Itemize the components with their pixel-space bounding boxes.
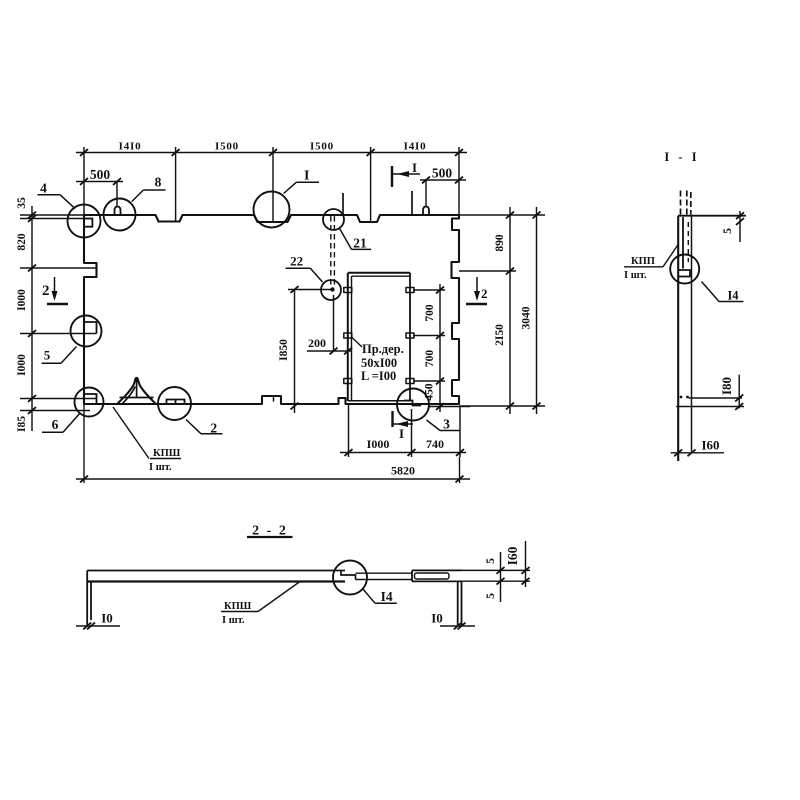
dim 10 left (section 2-2) <box>76 625 120 627</box>
svg-text:3: 3 <box>443 417 450 432</box>
loop bars above section <box>681 191 691 215</box>
circle 1 <box>254 192 290 228</box>
svg-text:Пр.дер.: Пр.дер. <box>362 342 404 356</box>
dim 160 (section 1-1) <box>671 452 724 454</box>
svg-text:I4I0: I4I0 <box>404 141 427 153</box>
svg-text:I500: I500 <box>310 141 334 153</box>
svg-text:I500: I500 <box>215 141 239 153</box>
dots on section line <box>680 396 683 399</box>
svg-text:2: 2 <box>42 283 50 299</box>
svg-text:I4I0: I4I0 <box>119 141 142 153</box>
svg-text:890: 890 <box>494 234 506 252</box>
section mark 2 left <box>47 277 68 304</box>
section mark I bottom (near circle 3) <box>393 411 414 427</box>
svg-text:I: I <box>412 160 417 175</box>
svg-text:I85: I85 <box>16 416 28 432</box>
dim line 1410/1500/1500/1410 <box>76 147 467 222</box>
svg-text:I60: I60 <box>505 546 520 565</box>
dim 5820 <box>76 404 470 483</box>
svg-text:I850: I850 <box>278 339 290 361</box>
ext y=218.5 (35) <box>20 218 92 220</box>
svg-text:2: 2 <box>481 286 488 301</box>
strip top line left part <box>87 570 345 572</box>
extension line x=175.6 <box>175 147 177 221</box>
inner lap line solid <box>682 217 684 269</box>
dim 500 right <box>420 180 466 206</box>
svg-text:I - I: I - I <box>664 150 699 164</box>
horizontal line at y=289.5 to circle 22 <box>288 289 334 291</box>
extension line x=370.6 <box>370 147 372 222</box>
circle 4 <box>68 205 101 238</box>
leader КПШ (section 2-2) <box>258 582 300 612</box>
svg-text:22: 22 <box>290 253 303 268</box>
notch in circle 4 <box>84 219 92 227</box>
ext y=333.5 <box>20 333 97 335</box>
lifting loop right <box>423 207 429 216</box>
extension line right edge up <box>458 147 460 215</box>
ext y=271 <box>459 270 516 272</box>
dim 180 (section 1-1) <box>676 375 744 409</box>
svg-text:5: 5 <box>44 347 51 362</box>
svg-text:700: 700 <box>424 350 436 368</box>
leader КПП <box>663 244 679 267</box>
circle 3 <box>397 389 429 421</box>
svg-text:35: 35 <box>16 197 28 209</box>
ext y=410.5 <box>20 410 90 412</box>
inner lap line dashed <box>687 222 689 262</box>
svg-text:500: 500 <box>90 167 111 182</box>
step symbol in circle 3 <box>404 401 421 406</box>
ext y=398.5 <box>20 398 97 400</box>
extension line x=273 through circle 1 <box>272 147 274 222</box>
svg-text:50хI00: 50хI00 <box>361 356 397 370</box>
svg-text:450: 450 <box>424 383 436 401</box>
svg-text:700: 700 <box>424 304 436 322</box>
ext y=215 <box>20 214 84 216</box>
svg-text:740: 740 <box>426 437 444 451</box>
opening right edge <box>409 273 411 401</box>
ext y=268 <box>20 267 96 269</box>
circle 14 (section 2-2) <box>333 561 367 595</box>
circle 5 <box>71 316 102 347</box>
leader for Пр.дер. <box>352 337 363 347</box>
svg-text:4: 4 <box>40 181 47 196</box>
lap step in circle 14 <box>341 571 356 580</box>
dim line 890/2150 <box>509 207 511 414</box>
dim 500 left <box>76 182 123 207</box>
svg-text:I4: I4 <box>381 589 393 604</box>
leader bell to KPSh label <box>113 407 149 459</box>
dim 200 <box>307 295 352 351</box>
wooden plug right middle <box>406 333 414 338</box>
svg-text:I000: I000 <box>16 354 28 376</box>
right slab of section 2-2 <box>412 570 462 581</box>
svg-text:5: 5 <box>485 558 497 564</box>
svg-text:I шт.: I шт. <box>149 462 172 473</box>
node dot in circle 22 <box>330 287 334 291</box>
dim 5 (section 1-1) <box>739 211 741 242</box>
wooden plug left top <box>344 288 352 293</box>
bell chord <box>120 397 154 399</box>
wooden plug right bottom <box>406 379 414 384</box>
notch center tick (bottom edge keyway) <box>273 396 275 401</box>
opening left edge (double line) <box>347 273 349 401</box>
svg-text:КПШ: КПШ <box>224 601 252 612</box>
lifting loop left (in circle 8) <box>115 207 121 216</box>
svg-text:I шт.: I шт. <box>624 270 647 281</box>
svg-text:5820: 5820 <box>391 464 415 478</box>
svg-text:I000: I000 <box>367 437 390 451</box>
opening bottom edge <box>348 400 410 402</box>
small mark above edge x=343 <box>342 193 344 215</box>
svg-text:8: 8 <box>155 175 162 190</box>
ticks top dim <box>80 149 88 156</box>
svg-text:I шт.: I шт. <box>222 615 245 626</box>
svg-text:I60: I60 <box>701 438 719 453</box>
svg-text:I0: I0 <box>101 611 113 626</box>
circle 21 <box>323 209 344 230</box>
extension line left edge up <box>83 147 85 215</box>
svg-text:3040: 3040 <box>521 306 533 329</box>
right end leg (double line) <box>458 581 462 625</box>
svg-text:I: I <box>304 169 309 184</box>
svg-text:КПШ: КПШ <box>153 448 181 459</box>
circle 14 (section 1-1) <box>670 255 699 284</box>
svg-text:6: 6 <box>52 417 59 432</box>
dim 160 (section 2-2) <box>525 541 527 587</box>
strip bottom line left part (thick) <box>87 580 345 582</box>
svg-text:2I50: 2I50 <box>494 324 506 346</box>
extension lines right of section 2-2 <box>462 570 530 581</box>
title underline <box>247 536 293 538</box>
svg-text:I0: I0 <box>431 611 443 626</box>
left dim line vertical <box>31 206 33 431</box>
svg-text:I4: I4 <box>727 289 739 303</box>
wooden plug left bottom <box>344 379 352 384</box>
svg-text:200: 200 <box>308 336 326 350</box>
circle 22 <box>321 280 341 300</box>
notch in circle 6 <box>84 394 97 404</box>
notch in circle 5 <box>84 322 97 334</box>
ext bottom right <box>459 405 545 407</box>
embed symbol in circle 2 <box>167 400 185 405</box>
dim 1850 vertical <box>288 290 334 414</box>
svg-text:I80: I80 <box>719 377 734 395</box>
dim line 3040 <box>536 207 538 414</box>
svg-text:820: 820 <box>16 233 28 251</box>
dashed tie line (double) from top edge to circle 22 <box>331 216 335 288</box>
section top edge <box>678 215 746 217</box>
lap step joint <box>678 270 691 277</box>
thin band right of circle 14 <box>356 573 413 579</box>
dim 700/700/450 right of opening <box>413 284 470 412</box>
section mark 2 right <box>466 277 487 304</box>
dim 10 right (section 2-2) <box>440 625 475 627</box>
svg-text:5: 5 <box>485 593 497 599</box>
section outer right line <box>691 216 693 452</box>
small mark above edge x=412 <box>411 191 413 215</box>
ext top right <box>459 214 545 216</box>
svg-text:I000: I000 <box>16 289 28 311</box>
svg-text:КПП: КПП <box>631 256 655 267</box>
circle 2 <box>158 387 191 420</box>
section mark I top <box>392 166 420 187</box>
wooden plug right top <box>406 288 414 293</box>
dim 5/5 (section 2-2) <box>500 552 502 602</box>
svg-text:I: I <box>399 426 404 441</box>
lifting hook symbol (bell) on bottom edge <box>117 378 156 404</box>
svg-text:5: 5 <box>722 228 734 234</box>
circle 8 <box>104 199 136 231</box>
svg-text:21: 21 <box>353 236 367 251</box>
dim texts top row <box>119 141 427 153</box>
opening top edge (double line) <box>348 272 410 274</box>
label wooden plugs Пр.дер. 50x100 L=100 <box>361 342 404 383</box>
inner channel rect <box>415 573 450 579</box>
wooden plug left middle <box>344 333 352 338</box>
section outer left line <box>677 216 679 461</box>
circle 6 <box>75 388 104 417</box>
bell inner left curve <box>122 387 135 405</box>
bell center line <box>136 378 138 397</box>
left end leg (double line) <box>87 571 91 626</box>
svg-text:500: 500 <box>432 166 453 181</box>
panel outline with edge notches <box>84 215 459 404</box>
svg-text:L =I00: L =I00 <box>361 369 396 383</box>
dim 1000 / 740 <box>340 405 466 457</box>
